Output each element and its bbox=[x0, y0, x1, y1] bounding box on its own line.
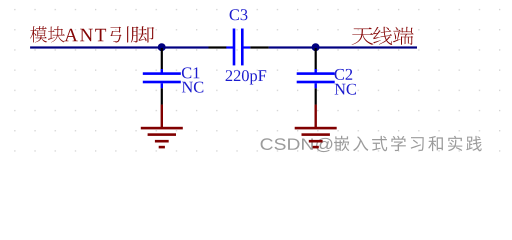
capacitor C3 220pF (series) bbox=[209, 29, 269, 66]
ground GND1 (below C1) bbox=[141, 105, 183, 149]
net label 模块ANT引脚 bbox=[30, 26, 154, 42]
grid background bbox=[0, 0, 512, 169]
net label 天线端 bbox=[352, 27, 414, 45]
capacitor C1 (shunt, NC) bbox=[143, 48, 181, 105]
capacitor C2 (shunt, NC) bbox=[297, 48, 335, 105]
label NC (C1) bbox=[182, 82, 203, 93]
wire net 天线端 segment bbox=[269, 46, 417, 48]
watermark CSDN@嵌入式学习和实践 bbox=[261, 136, 482, 152]
ground GND2 (below C2) bbox=[295, 105, 337, 149]
wire net 模块ANT引脚 segment bbox=[30, 46, 208, 48]
label C3 bbox=[230, 9, 248, 20]
node junction B (C2 tap) bbox=[312, 43, 320, 51]
label C2 bbox=[335, 69, 353, 80]
label 220pF bbox=[226, 70, 267, 84]
label NC (C2) bbox=[335, 84, 356, 95]
label C1 bbox=[182, 67, 200, 78]
node junction A (C1 tap) bbox=[158, 43, 166, 51]
